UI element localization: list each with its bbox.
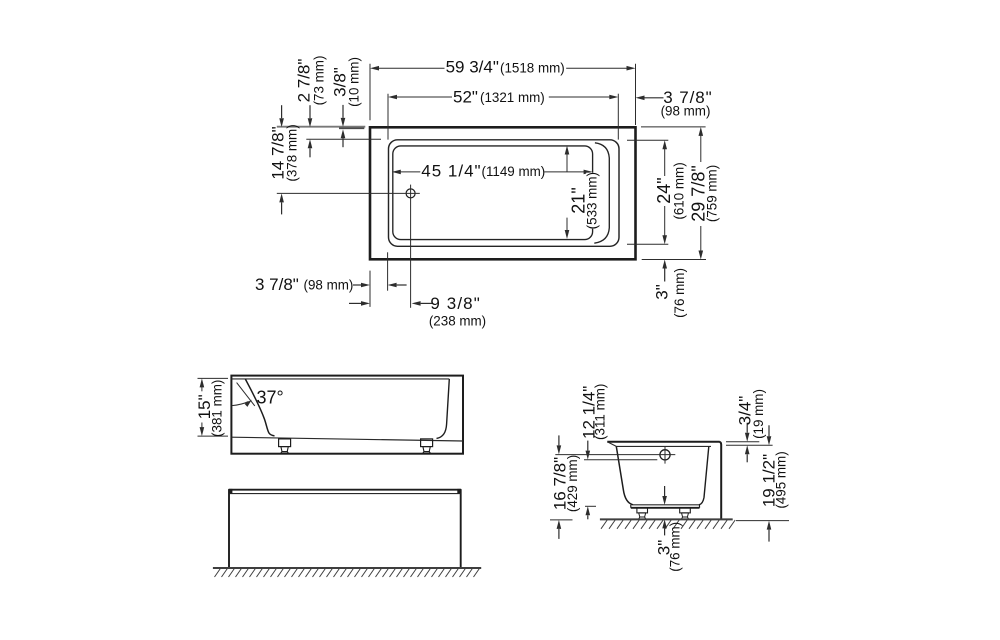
svg-text:(76 mm): (76 mm) — [667, 522, 682, 572]
dim 45 1/4 (1149 mm) floor length — [392, 170, 401, 175]
front wall inner line (side view) — [437, 379, 450, 438]
rim deck line (side view) — [231, 378, 449, 380]
backrest slope curve (side view) — [245, 379, 274, 436]
ground hatching under skirt — [215, 569, 480, 577]
right wall inner (end view) — [699, 446, 709, 504]
extension line left (59 3/4) — [369, 64, 371, 121]
svg-text:(495 mm): (495 mm) — [774, 451, 789, 508]
drain horizontal centerline / 14 7/8 reference — [277, 192, 420, 194]
rim inner lip line (3/8 offset) — [339, 127, 364, 129]
drain fitting (end view) — [660, 450, 670, 460]
svg-text:(759 mm): (759 mm) — [705, 165, 720, 222]
svg-text:(98 mm): (98 mm) — [661, 104, 711, 119]
svg-text:(378 mm): (378 mm) — [284, 124, 299, 181]
interior floor line (end view) — [633, 504, 699, 506]
rim top extension right — [726, 441, 759, 443]
side view bounding outline — [231, 376, 463, 454]
drain centerline horizontal (end view) — [555, 454, 675, 456]
side view left foot — [279, 439, 291, 447]
svg-text:(1149 mm): (1149 mm) — [482, 164, 546, 179]
extension line top (24) — [627, 139, 668, 141]
tub bottom extension left — [585, 505, 596, 507]
svg-text:(1321 mm): (1321 mm) — [480, 90, 545, 105]
svg-text:45 1/4": 45 1/4" — [421, 161, 481, 180]
extension line right (59 3/4) — [635, 64, 637, 125]
exterior bottom line (end view) — [631, 507, 700, 509]
rim top edge extension (grey) — [277, 126, 366, 128]
drain vertical centerline extended for 9 3/8 dim — [410, 185, 412, 308]
drain bottom reference line (12 1/4) — [584, 459, 657, 461]
extension line x=370 below — [369, 271, 371, 307]
svg-text:3": 3" — [653, 284, 672, 300]
extension line right (52) — [617, 94, 619, 140]
end view left foot — [637, 508, 648, 513]
rim bottom extension right — [726, 444, 773, 446]
dim 2 7/8 (73 mm) deck width — [309, 105, 311, 118]
svg-text:(73 mm): (73 mm) — [312, 56, 327, 106]
ground line (end view) — [600, 518, 733, 520]
extension line bottom (15) — [198, 435, 229, 437]
bottom edge left tick — [630, 505, 632, 508]
bottom edge right tick — [699, 505, 701, 508]
rim top line (end view) — [607, 441, 719, 443]
skirt top band line — [229, 493, 461, 495]
extension line top (15) — [198, 377, 229, 379]
rim underside line with left lip (end view) — [607, 442, 711, 447]
sloped backrest contour (top view right end) — [594, 143, 609, 243]
svg-text:(429 mm): (429 mm) — [565, 455, 580, 512]
dim 16 7/8 (429 mm) drain height — [558, 435, 560, 445]
tub bottom line (side view) — [231, 437, 463, 441]
dim 3/8 (10 mm) rim lip — [342, 105, 344, 118]
svg-text:(238 mm): (238 mm) — [429, 313, 486, 328]
extension line top (29 7/8) — [641, 126, 706, 128]
dim 9 3/8 (238 mm) drain offset — [349, 302, 361, 304]
svg-text:37°: 37° — [257, 388, 284, 408]
dim 14 7/8 (378 mm) drain from end — [281, 105, 283, 118]
extension line x=387.6 below — [387, 252, 389, 290]
svg-text:(76 mm): (76 mm) — [672, 268, 687, 318]
svg-text:59 3/4": 59 3/4" — [446, 58, 499, 77]
angle tangent line — [237, 383, 255, 406]
ground hatching (end view) — [601, 520, 735, 529]
dim 3 7/8 (98 mm) top right — [645, 97, 664, 99]
svg-text:52": 52" — [453, 87, 478, 106]
end view right foot — [680, 508, 691, 513]
svg-text:(19 mm): (19 mm) — [751, 389, 766, 439]
basin rim edge (top view) — [389, 140, 620, 247]
svg-text:(381 mm): (381 mm) — [210, 380, 225, 437]
skirt band left cap — [457, 489, 460, 494]
right wall flange (end view) — [720, 442, 722, 520]
angle arc — [232, 402, 249, 406]
svg-text:(1518 mm): (1518 mm) — [500, 61, 565, 76]
extension line left (52) — [387, 94, 389, 140]
svg-text:(533 mm): (533 mm) — [584, 172, 599, 229]
ground extension right — [736, 520, 789, 522]
tub rim outline (top view) — [370, 127, 636, 259]
svg-text:(311 mm): (311 mm) — [593, 384, 608, 440]
svg-text:(610 mm): (610 mm) — [672, 162, 687, 219]
dim 19 1/2 (495 mm) overall height — [768, 425, 770, 436]
basin floor outline (top view) — [393, 146, 593, 240]
left wall (end view) — [616, 446, 633, 504]
dim 12 1/4 (311 mm) drain to floor — [587, 441, 589, 451]
label 533 mm (rotated) — [586, 173, 600, 229]
svg-text:(10 mm): (10 mm) — [347, 57, 362, 107]
skirt outline — [229, 490, 461, 568]
extension line bottom (29 7/8) — [642, 259, 706, 261]
svg-text:9 3/8": 9 3/8" — [430, 294, 480, 313]
drain fitting (top view) — [406, 189, 415, 198]
svg-text:3 7/8": 3 7/8" — [255, 275, 299, 294]
ground line under skirt — [213, 567, 481, 569]
dim 3 (76 mm) bottom clearance — [664, 486, 666, 496]
drain centerline vertical tick (end view) — [664, 446, 666, 464]
side view right foot — [421, 439, 433, 447]
basin top edge extension — [306, 138, 381, 140]
extension line bottom (24) — [627, 243, 668, 245]
ground extension left — [550, 519, 573, 521]
arrow up at rim bottom for 3 in dim — [664, 269, 666, 282]
svg-text:(98 mm): (98 mm) — [304, 278, 354, 293]
dim 21 (533 mm) floor width — [565, 146, 570, 155]
